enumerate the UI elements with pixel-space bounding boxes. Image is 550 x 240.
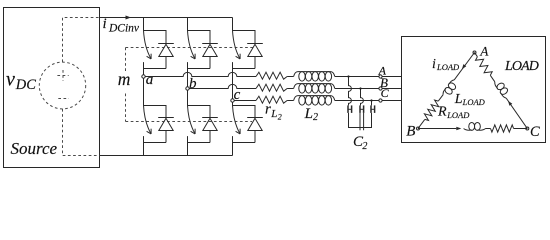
diode Q6/D6 bottom wire (254, 131, 256, 143)
diode Q4/D4 triangle (159, 118, 173, 130)
switch Q2/D2 barb (194, 54, 196, 59)
wire C2 mid stub (360, 113, 364, 130)
dashed net m bottom (126, 121, 253, 123)
diode Q2/D2 bar (202, 43, 218, 45)
junction dot A tap (347, 75, 349, 77)
switch Q5/D5 (188, 106, 196, 134)
wire phase A from node a (145, 72, 256, 76)
diode Q5/D5 triangle (203, 118, 217, 130)
wire A-B upper (454, 53, 474, 80)
wire leg a bottom (143, 143, 145, 156)
switch Q1/D1 barb (147, 56, 152, 59)
switch Q3/D3 (233, 31, 241, 59)
switch Q5/D5 barb (194, 129, 196, 134)
svg-text:m: m (118, 69, 131, 89)
load box (402, 37, 546, 143)
switch Q5/D5 stub (187, 136, 189, 142)
wire Q5/D5 join (188, 142, 211, 144)
node B load (417, 127, 420, 130)
switch Q6/D6 (233, 106, 241, 134)
switch Q1/D1 stub (143, 62, 145, 68)
wire phase C from node c (234, 100, 256, 102)
wire leg b mid (187, 69, 189, 87)
wire Q1/D1 top (143, 18, 145, 31)
diode Q2/D2 top wire (188, 31, 211, 44)
svg-text:2: 2 (362, 141, 367, 152)
svg-text:r: r (265, 102, 271, 118)
dashed wire source top (63, 18, 100, 63)
wire C2 bus (349, 113, 372, 128)
wire node c down (232, 102, 234, 105)
wire leg c bottom (232, 143, 234, 156)
diode Q4/D4 bottom wire (165, 131, 167, 143)
resistor rL2 phase B (256, 84, 287, 91)
wire phase A rl (287, 76, 294, 78)
inductor A-C (496, 82, 506, 91)
switch Q6/D6 barb (236, 131, 241, 134)
node C load (526, 127, 529, 130)
svg-text:i: i (103, 16, 107, 32)
wire A-B mid (438, 95, 443, 101)
wire cap tap B (361, 89, 364, 106)
switch Q4/D4 barb (150, 129, 152, 134)
wire A-B lower (418, 119, 425, 128)
diode Q4/D4 top wire (144, 106, 167, 118)
svg-text:L: L (304, 106, 313, 122)
diode Q3/D3 triangle (248, 44, 262, 56)
wire phase B to load (335, 88, 379, 90)
arrow on A-C (508, 101, 512, 106)
wire node a down (143, 78, 145, 105)
wire A-C top (475, 53, 478, 57)
svg-text:R: R (437, 105, 447, 120)
diode Q5/D5 bottom wire (209, 131, 211, 143)
node a (142, 75, 145, 78)
wire Q6/D6 join (233, 142, 256, 144)
diode Q3/D3 top wire (233, 31, 256, 44)
svg-text:LOAD: LOAD (446, 110, 470, 120)
wire node b down (187, 90, 189, 105)
wire DC- rail (100, 155, 233, 157)
switch Q3/D3 barb (236, 56, 241, 59)
switch Q5/D5 barb (191, 131, 196, 134)
dashed net m top (126, 47, 254, 49)
switch Q4/D4 (144, 106, 152, 134)
node c (231, 99, 234, 102)
resistor RLOAD A-B (424, 100, 438, 120)
switch Q6/D6 barb (239, 129, 241, 134)
wire phase C rl (287, 100, 294, 102)
wire A-C mid (490, 75, 495, 82)
svg-text:2: 2 (313, 112, 318, 123)
wire B-C mid (486, 128, 491, 130)
switch Q4/D4 barb (147, 131, 152, 134)
svg-text:DCinv: DCinv (108, 22, 140, 34)
svg-text:DC: DC (15, 77, 36, 93)
diode Q1/D1 triangle (159, 44, 173, 56)
switch Q1/D1 (144, 31, 152, 59)
arrow on B-C (456, 127, 461, 131)
node B (379, 87, 382, 90)
inductor LLOAD A-B (447, 82, 457, 91)
node A load (473, 51, 476, 54)
resistor rL2 phase C (256, 96, 287, 103)
diode Q6/D6 triangle (248, 118, 262, 130)
wire phase B from node b (189, 84, 256, 88)
switch Q3/D3 barb (239, 54, 241, 59)
wire phase B into box (382, 88, 401, 90)
wire Q3/D3 join (233, 68, 256, 70)
wire DC+ rail (100, 17, 233, 19)
capacitor C2c (370, 105, 372, 113)
diode Q6/D6 top wire (233, 106, 256, 118)
arrow iDCinv (126, 16, 131, 20)
wire phase C into box (382, 100, 401, 102)
junction dot B tap (359, 87, 361, 89)
wire phase B rl (287, 88, 294, 90)
wire B-C right (514, 128, 528, 130)
node C (379, 99, 382, 102)
resistor rL2 phase A (256, 72, 287, 79)
wire leg b bottom (187, 143, 189, 156)
inductor L2 phase A (294, 72, 335, 77)
svg-text:A: A (479, 44, 488, 59)
wire Q2/D2 join (188, 68, 211, 70)
wire Q2/D2 top (187, 18, 189, 31)
minus sign of source (58, 98, 69, 100)
diode Q1/D1 bottom wire (165, 57, 167, 69)
voltage source VDC (dashed circle) (39, 62, 85, 109)
wire cap tap A (349, 77, 352, 106)
diode Q6/D6 bar (247, 117, 263, 119)
diode Q1/D1 bar (158, 43, 174, 45)
svg-text:b: b (189, 76, 197, 92)
wire phase A into box (382, 76, 401, 78)
inductor L2 phase C (294, 96, 335, 101)
diode Q4/D4 bar (158, 117, 174, 119)
wire A-C lower (506, 98, 527, 128)
wire Q4/D4 join (144, 142, 167, 144)
svg-text:i: i (432, 57, 436, 72)
junction dot C tap (370, 99, 372, 101)
svg-text:Source: Source (11, 139, 58, 158)
svg-text:L: L (270, 108, 277, 120)
wire Q1/D1 join (144, 68, 167, 70)
svg-text:a: a (146, 72, 154, 88)
wire B-C left (418, 128, 456, 130)
svg-text:v: v (6, 69, 15, 91)
switch Q4/D4 stub (143, 136, 145, 142)
resistor B-C (491, 125, 514, 132)
svg-text:C: C (530, 124, 540, 140)
source box (4, 8, 100, 168)
svg-text:LOAD: LOAD (436, 62, 460, 72)
plus sign of source (57, 70, 68, 81)
svg-text:2: 2 (278, 112, 282, 121)
capacitor C2b (359, 105, 361, 113)
svg-text:B: B (406, 124, 415, 140)
dashed wire source bottom (63, 109, 100, 156)
svg-text:LOAD: LOAD (504, 59, 539, 74)
node A (379, 75, 382, 78)
switch Q2/D2 stub (187, 62, 189, 68)
diode Q2/D2 bottom wire (209, 57, 211, 69)
diode Q1/D1 top wire (144, 31, 167, 44)
wire leg c mid (232, 69, 234, 99)
diode Q3/D3 bar (247, 43, 263, 45)
switch Q2/D2 (188, 31, 196, 59)
node b (186, 87, 189, 90)
wire phase A to load (335, 76, 379, 78)
wire phase C to load (335, 100, 379, 102)
svg-text:L: L (454, 92, 463, 107)
resistor A-C (476, 57, 493, 76)
switch Q6/D6 stub (232, 136, 234, 142)
capacitor C2a (347, 105, 349, 113)
diode Q3/D3 bottom wire (254, 57, 256, 69)
wire Q3/D3 top (232, 18, 234, 31)
switch Q2/D2 barb (191, 56, 196, 59)
inductor B-C (469, 122, 475, 130)
arrow iLOAD on A-B (462, 64, 466, 69)
inductor L2 phase B (294, 84, 335, 89)
switch Q3/D3 stub (232, 62, 234, 68)
dashed net m vertical (125, 48, 127, 122)
switch Q1/D1 barb (150, 54, 152, 59)
svg-text:C: C (381, 86, 390, 100)
diode Q5/D5 top wire (188, 106, 211, 118)
wire leg a mid (143, 69, 145, 75)
diode Q2/D2 triangle (203, 44, 217, 56)
diode Q5/D5 bar (202, 117, 218, 119)
wire cap tap C (371, 101, 373, 106)
svg-text:LOAD: LOAD (462, 97, 486, 107)
